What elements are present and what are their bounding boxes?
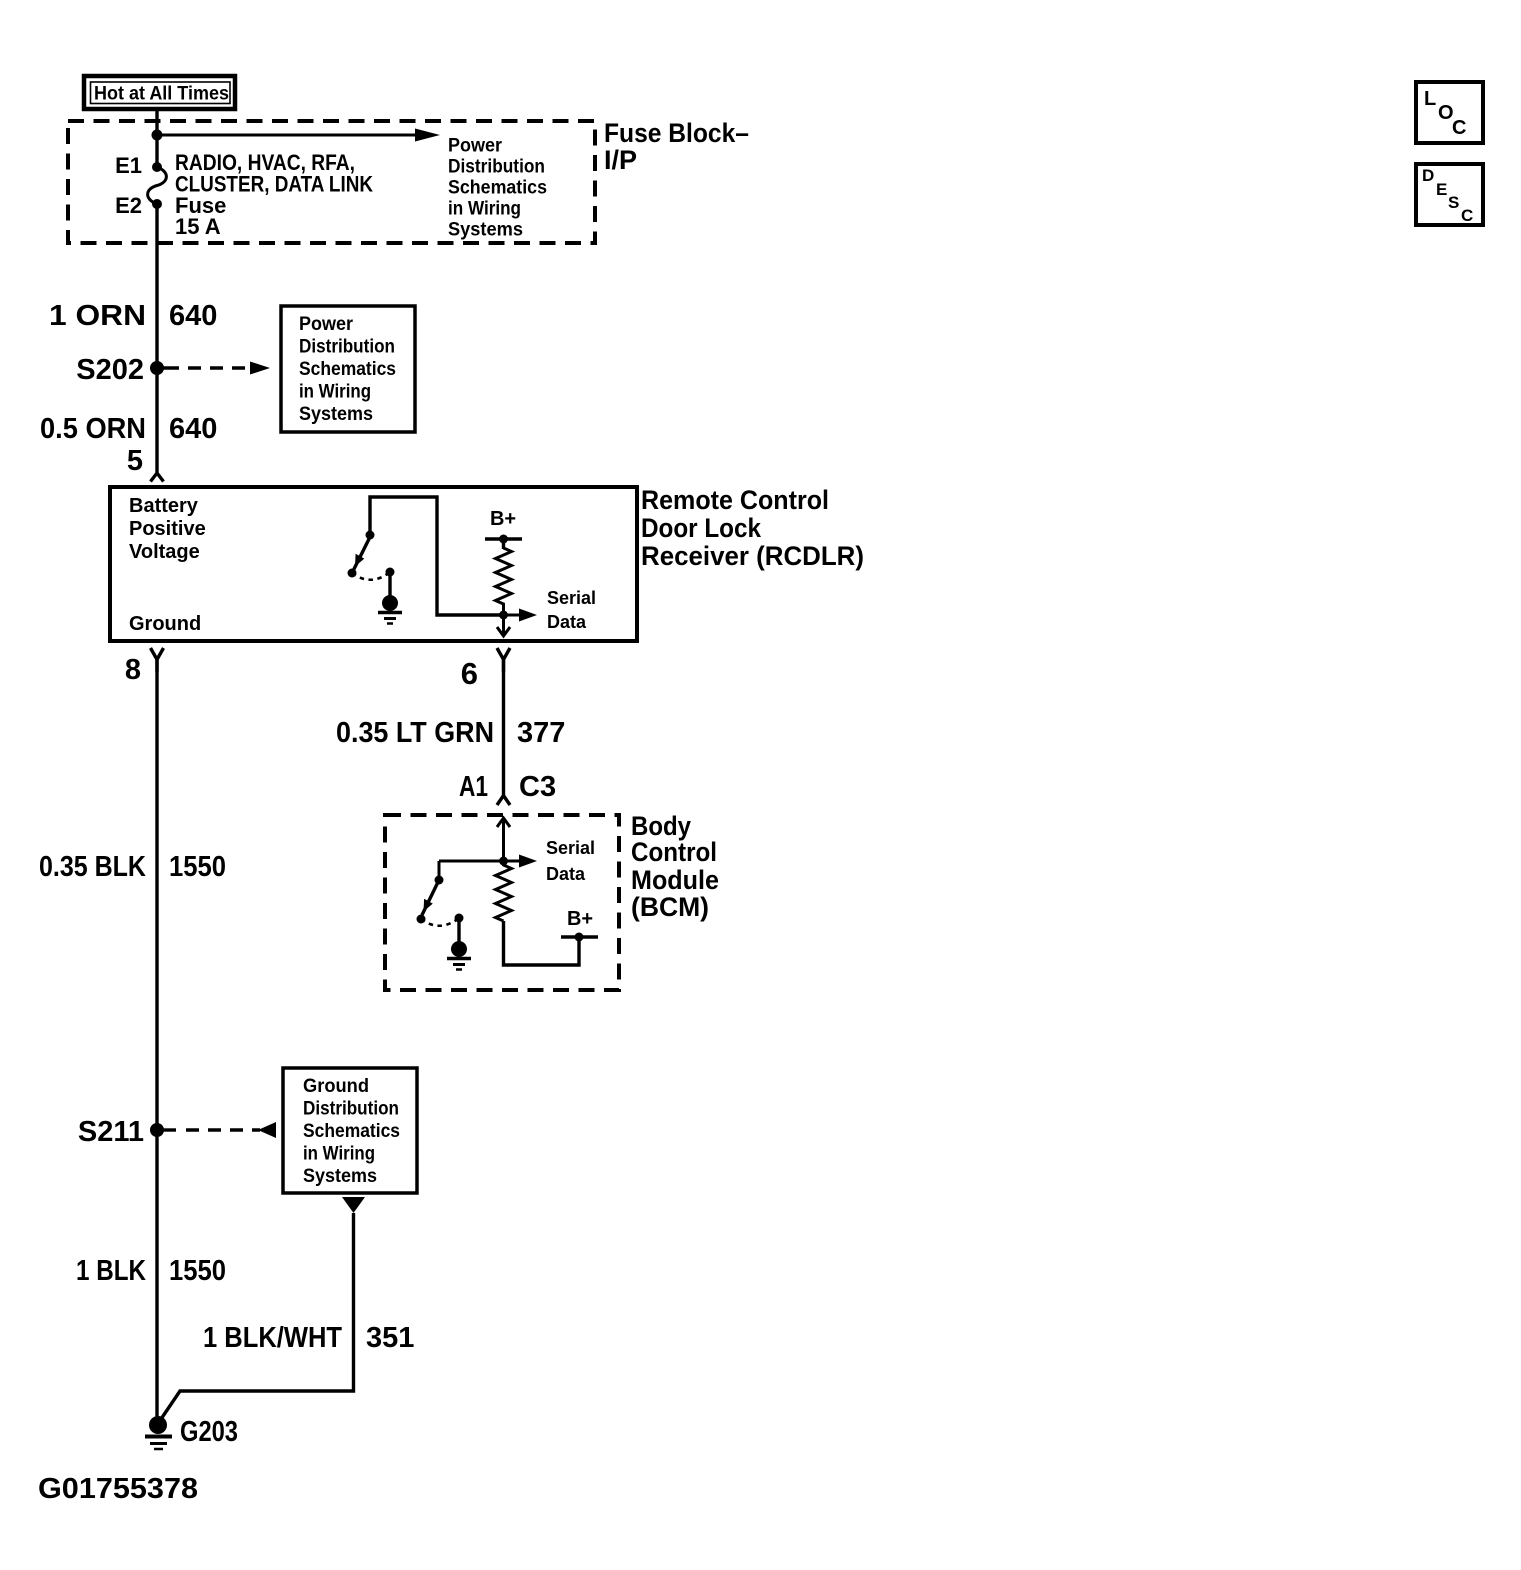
wire: fuse E2 down to splice S202 [155, 204, 158, 368]
node: junction dot at fuse feed [152, 130, 163, 141]
pin label E2 [115, 193, 142, 218]
svg-text:G203: G203 [180, 1416, 238, 1448]
svg-text:Serial: Serial [546, 838, 595, 858]
wire: BCM resistor to B+ [504, 921, 580, 965]
wire: BCM input up arrow [497, 818, 510, 861]
wire: junction down to fuse pin E1 [155, 135, 158, 167]
wire: dashed reference arrow from S211 [160, 1122, 276, 1138]
svg-text:S202: S202 [76, 354, 144, 386]
wire: pin 6 down to BCM connector [502, 660, 505, 796]
svg-text:Battery: Battery [129, 495, 199, 517]
svg-text:Hot at All Times: Hot at All Times [94, 84, 229, 105]
svg-text:S: S [1448, 193, 1459, 212]
wire label: 0.35 LT GRN 377 [336, 717, 565, 749]
svg-text:in Wiring: in Wiring [448, 199, 521, 220]
svg-text:in Wiring: in Wiring [299, 382, 371, 403]
switch in BCM [417, 861, 464, 942]
node: BCM serial junction [499, 857, 508, 866]
ground symbol in RCDLR switch [378, 595, 402, 624]
svg-text:E2: E2 [115, 193, 142, 218]
svg-text:5: 5 [127, 445, 143, 477]
B+ terminal bar (RCDLR) [485, 535, 522, 550]
svg-text:S211: S211 [78, 1116, 144, 1148]
svg-text:Ground: Ground [129, 613, 201, 635]
svg-text:Serial: Serial [547, 588, 596, 608]
svg-text:351: 351 [366, 1322, 414, 1354]
label: Fuse Block- I/P [604, 118, 749, 175]
svg-text:Systems: Systems [303, 1166, 377, 1187]
svg-text:Distribution: Distribution [448, 157, 545, 178]
label: Body Control Module (BCM) [631, 811, 719, 922]
wire from Hot at All Times into fuse block [155, 109, 158, 136]
svg-text:Ground: Ground [303, 1076, 369, 1097]
label: Power Distribution Schematics in Wiring Systems (fuse block) [448, 136, 547, 241]
svg-text:Power: Power [299, 314, 354, 335]
module box: Remote Control Door Lock Receiver (RCDLR) [110, 487, 637, 641]
svg-text:1550: 1550 [169, 851, 226, 883]
svg-text:Fuse Block–: Fuse Block– [604, 118, 749, 148]
ground G203 [145, 1416, 238, 1449]
svg-text:640: 640 [169, 300, 217, 332]
wire label: 0.5 ORN 640 [40, 413, 217, 445]
svg-text:I/P: I/P [604, 145, 637, 175]
svg-text:1 BLK/WHT: 1 BLK/WHT [203, 1322, 342, 1354]
wire label: 1 ORN 640 [49, 300, 217, 332]
svg-text:C: C [1461, 206, 1473, 225]
reference box: Ground Distribution Schematics in Wiring Systems [283, 1068, 417, 1193]
svg-text:0.5 ORN: 0.5 ORN [40, 413, 146, 445]
svg-text:0.35 BLK: 0.35 BLK [39, 851, 146, 883]
svg-text:1 BLK: 1 BLK [76, 1255, 146, 1287]
wire: RCDLR internal top bar and right drop [370, 497, 504, 615]
svg-text:Remote Control: Remote Control [641, 485, 829, 515]
svg-text:L: L [1424, 88, 1436, 110]
svg-text:C3: C3 [519, 771, 556, 803]
svg-text:Distribution: Distribution [303, 1099, 399, 1120]
svg-text:Power: Power [448, 136, 503, 157]
svg-text:in Wiring: in Wiring [303, 1144, 375, 1165]
svg-text:0.35 LT GRN: 0.35 LT GRN [336, 717, 494, 749]
switch in RCDLR [348, 531, 395, 597]
svg-text:Door Lock: Door Lock [641, 513, 762, 543]
svg-text:Schematics: Schematics [448, 178, 547, 199]
label: Serial Data (BCM) [546, 838, 595, 884]
svg-text:1 ORN: 1 ORN [49, 300, 146, 332]
svg-text:377: 377 [517, 717, 565, 749]
splice S211 [78, 1116, 164, 1148]
wire: serial data arrow (BCM) [439, 855, 537, 868]
svg-text:Voltage: Voltage [129, 541, 200, 563]
svg-text:B+: B+ [567, 908, 593, 930]
resistor in BCM [496, 861, 512, 921]
svg-text:Receiver (RCDLR): Receiver (RCDLR) [641, 541, 864, 571]
svg-text:6: 6 [461, 656, 478, 691]
connector pin 6 below RCDLR [461, 648, 510, 691]
wire: serial data arrow (RCDLR) [504, 609, 538, 622]
wire: down arrow to pin 6 (RCDLR) [497, 615, 510, 636]
label B+ (RCDLR) [490, 508, 516, 530]
resistor in RCDLR [496, 548, 512, 615]
svg-text:D: D [1422, 166, 1434, 185]
pin 5 label [127, 445, 143, 477]
svg-text:Systems: Systems [299, 404, 373, 425]
connector A1 C3 [459, 771, 556, 805]
wire label: 1 BLK/WHT 351 [203, 1322, 414, 1354]
svg-text:B+: B+ [490, 508, 516, 530]
wire: arrow to Power Distribution Schematics (in fuse block) [157, 129, 440, 142]
svg-text:1550: 1550 [169, 1255, 226, 1287]
svg-text:15 A: 15 A [175, 214, 221, 239]
splice S202 [76, 354, 164, 386]
svg-text:(BCM): (BCM) [631, 892, 709, 922]
svg-text:8: 8 [125, 654, 141, 686]
connector pin 8 below RCDLR [125, 648, 164, 686]
node: serial data junction (RCDLR) [499, 611, 508, 620]
wire: from ground distribution box down (arrow out of box) [159, 1197, 365, 1422]
svg-text:Positive: Positive [129, 518, 206, 540]
label: Battery Positive Voltage [129, 495, 206, 563]
ground symbol in BCM switch [447, 941, 471, 970]
fuse: RADIO,HVAC,RFA,CLUSTER,DATA LINK Fuse 15 A (pins E1,E2) [148, 162, 167, 209]
wire label: 1 BLK 1550 [76, 1255, 226, 1287]
svg-text:Schematics: Schematics [303, 1121, 400, 1142]
label: Ground [129, 613, 201, 635]
wire label: 0.35 BLK 1550 [39, 851, 226, 883]
svg-text:640: 640 [169, 413, 217, 445]
fuse value label [175, 150, 373, 239]
reference box: Power Distribution Schematics in Wiring Systems [281, 306, 415, 432]
svg-text:Data: Data [546, 864, 586, 884]
label box: Hot at All Times [84, 76, 235, 109]
svg-text:Data: Data [547, 612, 587, 632]
wire: splice S211 down to ground G203 [155, 1130, 158, 1425]
figure number label G01755378 [38, 1473, 198, 1505]
svg-text:Distribution: Distribution [299, 337, 395, 358]
svg-text:Module: Module [631, 865, 719, 895]
pin label E1 [115, 153, 142, 178]
svg-text:C: C [1452, 117, 1466, 139]
label: Remote Control Door Lock Receiver (RCDLR) [641, 485, 864, 571]
reference tab box: LOC [1416, 82, 1483, 143]
svg-text:Control: Control [631, 837, 717, 867]
wire: dashed reference arrow from S202 [160, 362, 270, 375]
module box: Body Control Module (BCM) dashed [385, 815, 619, 990]
wire: pin 8 down to splice S211 [155, 660, 158, 1131]
svg-text:Systems: Systems [448, 220, 523, 241]
label B+ (BCM) [567, 908, 593, 930]
label: Serial Data (RCDLR) [547, 588, 596, 632]
svg-text:Schematics: Schematics [299, 359, 396, 380]
svg-text:E1: E1 [115, 153, 142, 178]
svg-text:G01755378: G01755378 [38, 1473, 198, 1505]
svg-text:E: E [1436, 180, 1447, 199]
fuse block I/P dashed box [68, 121, 595, 243]
svg-text:A1: A1 [459, 771, 488, 803]
reference tab box: DESC [1416, 164, 1483, 225]
connector pin 5 into RCDLR [151, 368, 164, 482]
B+ terminal bar (BCM) [561, 933, 598, 942]
